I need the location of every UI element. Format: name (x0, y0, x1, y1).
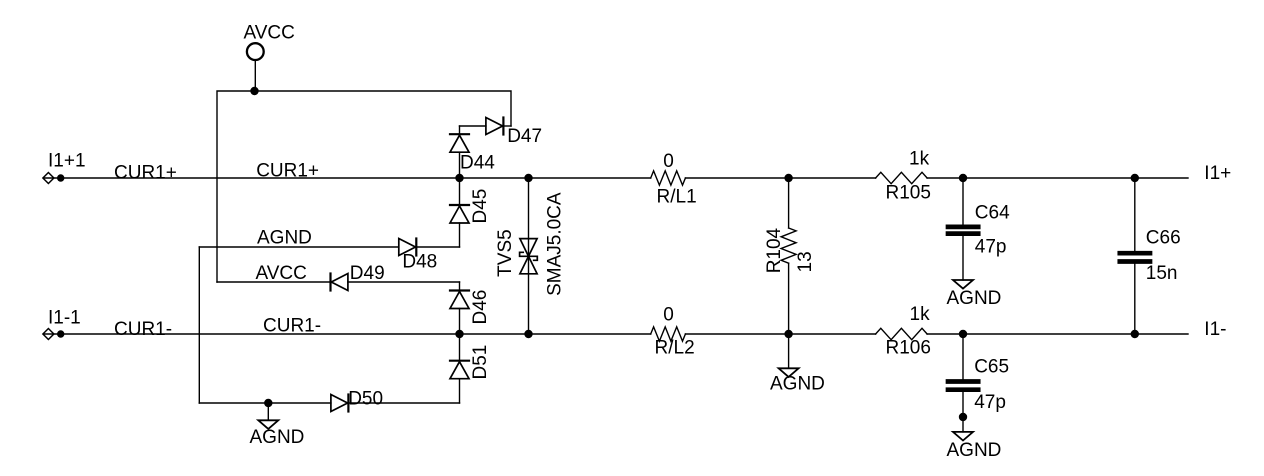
svg-text:13: 13 (795, 251, 816, 272)
diode D50 (331, 388, 383, 411)
junction AVCC stub (250, 87, 258, 95)
resistor R105 (876, 148, 931, 203)
svg-text:AVCC: AVCC (244, 22, 295, 43)
wire AGND horizontal (199, 246, 459, 248)
svg-text:D47: D47 (507, 126, 542, 147)
svg-text:CUR1+: CUR1+ (256, 161, 319, 182)
resistor R106 (876, 304, 931, 359)
svg-text:0: 0 (663, 305, 674, 326)
TVS diode TVS5 (495, 178, 565, 334)
diode D47 (460, 118, 543, 148)
ground AGND (bottom left) (250, 403, 305, 448)
svg-text:R/L1: R/L1 (657, 187, 697, 208)
svg-text:CUR1-: CUR1- (114, 319, 172, 340)
diode D48 (399, 239, 437, 273)
junction D46/D51 bottom (455, 330, 463, 338)
junction C66 bottom (1131, 330, 1139, 338)
junction C65 bottom (959, 413, 967, 421)
junction R104 bottom (784, 330, 792, 338)
terminal I1+1 (43, 151, 86, 184)
wire AVCC top bus (217, 91, 511, 282)
capacitor C64 (948, 178, 1010, 280)
junction C66 top (1131, 174, 1139, 182)
junction C64 top (959, 174, 967, 182)
svg-text:C64: C64 (975, 203, 1010, 224)
junction TVS top (524, 174, 532, 182)
svg-text:AGND: AGND (257, 228, 312, 249)
ground AGND (R104) (770, 334, 825, 394)
wire CUR1- rail (44, 333, 1189, 335)
svg-text:D44: D44 (460, 152, 495, 173)
wire CUR1+ rail (44, 177, 1189, 179)
junction C65 top (959, 330, 967, 338)
svg-text:AVCC: AVCC (256, 263, 307, 284)
diode D44 (450, 126, 495, 178)
svg-text:I1+: I1+ (1204, 163, 1231, 184)
junction R104 top (784, 174, 792, 182)
svg-text:C66: C66 (1146, 227, 1181, 248)
svg-text:R105: R105 (886, 183, 931, 204)
svg-text:SMAJ5.0CA: SMAJ5.0CA (544, 192, 565, 296)
svg-text:D49: D49 (350, 263, 385, 284)
diode D51 (450, 334, 491, 403)
svg-text:TVS5: TVS5 (495, 229, 516, 277)
svg-text:I1+1: I1+1 (48, 151, 86, 172)
diode D49 (331, 263, 385, 291)
junction D44/D45 top (455, 174, 463, 182)
svg-text:D46: D46 (470, 290, 491, 325)
junction TVS bottom (524, 330, 532, 338)
svg-text:R104: R104 (764, 227, 785, 273)
svg-text:D50: D50 (348, 388, 383, 409)
ground AGND (C64) (947, 280, 1002, 309)
svg-text:R/L2: R/L2 (655, 338, 695, 359)
svg-text:D48: D48 (402, 251, 437, 272)
svg-text:1k: 1k (910, 304, 931, 325)
svg-text:C65: C65 (974, 357, 1009, 378)
svg-text:AGND: AGND (770, 373, 825, 394)
svg-text:15n: 15n (1146, 263, 1178, 284)
svg-text:0: 0 (663, 151, 674, 172)
svg-text:CUR1-: CUR1- (263, 316, 321, 337)
svg-text:AGND: AGND (947, 288, 1002, 309)
capacitor C66 (1120, 178, 1181, 334)
svg-text:47p: 47p (975, 237, 1007, 258)
resistor R/L2 (651, 305, 695, 359)
wire AVCC horizontal (217, 282, 460, 291)
svg-text:I1-1: I1-1 (48, 308, 81, 329)
svg-text:1k: 1k (909, 148, 930, 169)
resistor R104 (764, 178, 816, 334)
svg-text:I1-: I1- (1204, 319, 1226, 340)
svg-text:AGND: AGND (250, 427, 305, 448)
ground AGND (C65) (947, 432, 1002, 461)
svg-text:D51: D51 (470, 345, 491, 380)
power symbol AVCC (244, 22, 295, 91)
junction bottom AGND (264, 399, 272, 407)
wire bottom AGND run (199, 402, 459, 404)
svg-text:R106: R106 (886, 338, 931, 359)
svg-text:AGND: AGND (947, 440, 1002, 461)
resistor R/L1 (651, 151, 697, 208)
diode D46 (450, 290, 491, 334)
wire AGND leg (198, 247, 200, 403)
capacitor C65 (948, 334, 1009, 432)
svg-text:D45: D45 (470, 189, 491, 224)
svg-text:47p: 47p (974, 392, 1006, 413)
diode D45 (450, 178, 491, 247)
svg-text:CUR1+: CUR1+ (114, 162, 177, 183)
terminal I1-1 (43, 308, 81, 340)
